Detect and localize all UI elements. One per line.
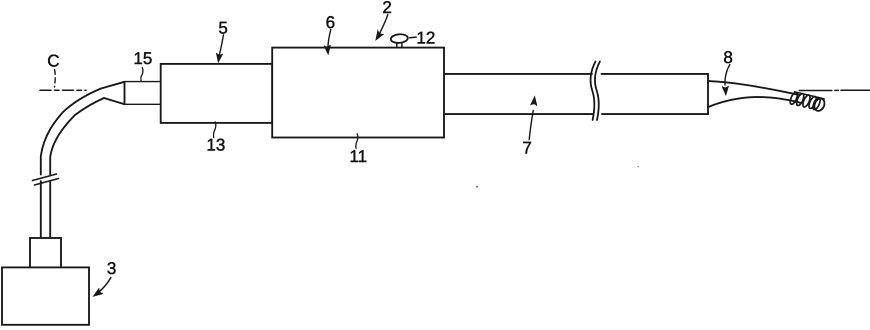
shaft 7 top line <box>444 73 708 75</box>
arrow from 3 <box>99 278 111 293</box>
coil loop 2 <box>795 93 805 107</box>
valve button 12 cap <box>390 34 408 44</box>
svg-text:8: 8 <box>723 48 732 67</box>
arrow from 7 <box>529 111 533 140</box>
bending tip bottom curve <box>708 97 800 107</box>
coil loop 3 <box>801 94 811 108</box>
coil loop 1 <box>789 91 799 105</box>
svg-text:3: 3 <box>107 259 116 278</box>
break symbol on shaft (left curve) <box>591 62 596 121</box>
wire: leader from 13 <box>214 122 216 137</box>
bending tip top curve <box>708 81 800 95</box>
connector box 3 <box>2 267 89 324</box>
connector sleeve 15 body <box>125 82 161 105</box>
svg-text:15: 15 <box>133 49 152 68</box>
wire: leader from 11 <box>356 134 358 149</box>
wire: dashed leader under C <box>54 70 57 88</box>
svg-text:7: 7 <box>522 139 531 158</box>
coil end cap loop <box>812 97 826 113</box>
svg-text:C: C <box>47 52 59 71</box>
break symbol on shaft (right curve) <box>595 62 600 121</box>
coil tip envelope <box>795 92 824 99</box>
taper cone at proximal tip <box>101 82 124 105</box>
wire: tube outer edge curving down from tip <box>41 88 102 238</box>
box 5 (grip section) <box>161 64 273 123</box>
svg-text:11: 11 <box>349 147 367 166</box>
svg-text:13: 13 <box>206 136 225 155</box>
valve button 12 stem <box>397 43 402 48</box>
shaft 7 bottom line <box>444 113 708 115</box>
coil loop 5 <box>812 97 822 111</box>
wire: axis centerline right (dash-dot) <box>799 89 870 91</box>
wire: dash to label 12 <box>410 36 417 39</box>
arrow from 8 <box>725 65 730 86</box>
connector plug neck <box>30 238 61 267</box>
box 6 (main operation body) <box>272 48 444 138</box>
arrow from 2 <box>380 15 388 34</box>
wire: leader from 15 <box>141 68 143 81</box>
coil loop 4 <box>808 96 818 110</box>
wire: tube inner edge curving down from tip <box>50 98 104 238</box>
arrow from 6 <box>328 30 331 48</box>
stray speck 1 <box>476 186 478 188</box>
svg-text:12: 12 <box>416 29 435 48</box>
break symbol on tube <box>33 174 59 185</box>
shaft 7 end face <box>707 74 709 114</box>
arrow from 5 <box>219 35 223 56</box>
wire: axis centerline left (dash-dot) <box>40 89 86 91</box>
stray speck 2 <box>637 166 639 168</box>
